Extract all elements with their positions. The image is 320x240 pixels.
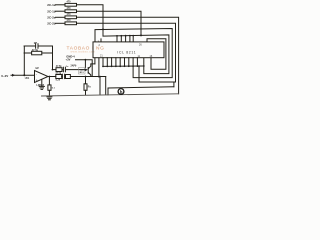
svg-text:0.1: 0.1 [52,88,56,90]
IC bottom pin stub pin6 [98,58,100,77]
resistor R1 [65,3,77,6]
wire [61,76,64,78]
wire drop x=100 to ground line [99,77,101,95]
svg-text:www.taobao.com: www.taobao.com [71,50,96,54]
svg-text:3AX: 3AX [80,68,85,71]
svg-text:470: 470 [67,1,72,4]
wire row4 wrap to lower-right staircase [77,23,176,82]
node R6 tap junction [49,76,51,78]
resistor R5 (feedback) [24,49,52,55]
IC top pin stubs with junction dots [116,35,134,42]
wire bottom ground line [42,94,179,96]
node IN2 label 2C-1b [47,9,56,13]
svg-text:0~2V: 0~2V [1,74,8,78]
svg-text:47.5k: 47.5k [56,65,62,68]
svg-text:1P: 1P [34,41,38,45]
node junction row2-busB [140,34,142,36]
pin stub IC pin1 [100,39,102,42]
svg-text:8.2k: 8.2k [56,80,61,82]
svg-text:-: - [36,72,37,76]
wire lower row to right [70,76,105,78]
transistor Q1 label box 3AX [79,68,86,75]
capacitor C3 [62,74,64,78]
label 2AP9 [71,65,77,68]
svg-text:2C-1a: 2C-1a [47,3,56,7]
node junction row1-busA [102,28,104,30]
wire bus B [103,30,169,74]
svg-text:1n: 1n [66,66,69,68]
resistor R7 [56,68,62,72]
label GND / +3V supply [66,54,76,61]
svg-text:b: b [120,89,123,94]
node IN1 label 2C-1a [47,3,56,7]
svg-text:2C-2b: 2C-2b [47,21,56,25]
svg-text:Rs: Rs [88,87,92,89]
wire row3 left [56,16,66,18]
wire [64,76,67,78]
node IN3 label 2C-2a [47,15,56,19]
wire v4 lower vertical [173,82,175,87]
node IN4 label 2C-2b [47,21,56,25]
svg-text:47.5k: 47.5k [55,72,61,75]
transistor Q1 symbol [85,64,95,77]
svg-text:B13: B13 [80,72,85,74]
wire row2 to bus B [77,11,142,35]
wire rail drop to transistor [84,60,86,68]
resistor R2 [65,10,77,13]
ground (below R6) [47,97,52,100]
capacitor C2 [63,66,69,72]
resistor R9 [66,75,71,79]
IC U2 body [93,42,164,58]
wire row1 left [56,4,66,6]
op-amp U1 [35,67,49,87]
wire op-amp output stub [48,76,56,78]
svg-text:+3V: +3V [66,57,71,61]
node output junction upper row [52,69,54,71]
wire row3 wrap right edge to bottom ground line [77,17,179,94]
resistor R8 [56,75,62,79]
node VIN input [1,74,8,78]
svg-text:1/2: 1/2 [35,67,39,70]
wire mid bottom line (parallel) [108,87,174,95]
wire feedback left vertical to inverting input [23,46,25,75]
wire input with arrow [11,74,35,76]
watermark taobao [67,45,105,53]
svg-text:ICL 8211: ICL 8211 [117,50,136,54]
wire drop x=105.7 to upper bottom line [105,77,107,95]
IC label [99,44,153,58]
wire [62,69,63,71]
svg-text:470: 470 [67,7,72,10]
svg-text:2C-2a: 2C-2a [47,15,56,19]
svg-text:2AP9: 2AP9 [71,65,77,68]
wire row2 left [56,10,66,12]
wire pin stub to base [94,58,96,64]
ground (op-amp noninverting) [39,80,44,90]
wire bus C [147,39,166,69]
wire +3V rail [76,60,93,77]
wire bus A [95,29,172,78]
svg-text:+: + [36,78,38,82]
wire row1 to bus A [77,5,104,30]
wire [66,69,85,71]
wire bottom bus with pin stubs [102,58,145,68]
capacitor C1 (feedback) [24,41,52,48]
svg-text:2C-1b: 2C-1b [47,9,56,13]
svg-text:470: 470 [67,19,72,22]
resistor R3 [65,16,77,19]
resistor R4 [65,22,77,25]
wire row4 left [56,22,66,24]
resistor R10 (to ground line) [84,76,91,95]
svg-text:47.5k: 47.5k [32,49,39,52]
resistor R6 (output to ground line) [48,77,56,96]
label 8.2k [56,80,61,82]
node figure label (b) [118,89,124,95]
wire upper row start [53,69,57,71]
wire output vertical [52,46,54,70]
svg-text:U01: U01 [25,77,30,80]
svg-text:470: 470 [67,13,72,16]
